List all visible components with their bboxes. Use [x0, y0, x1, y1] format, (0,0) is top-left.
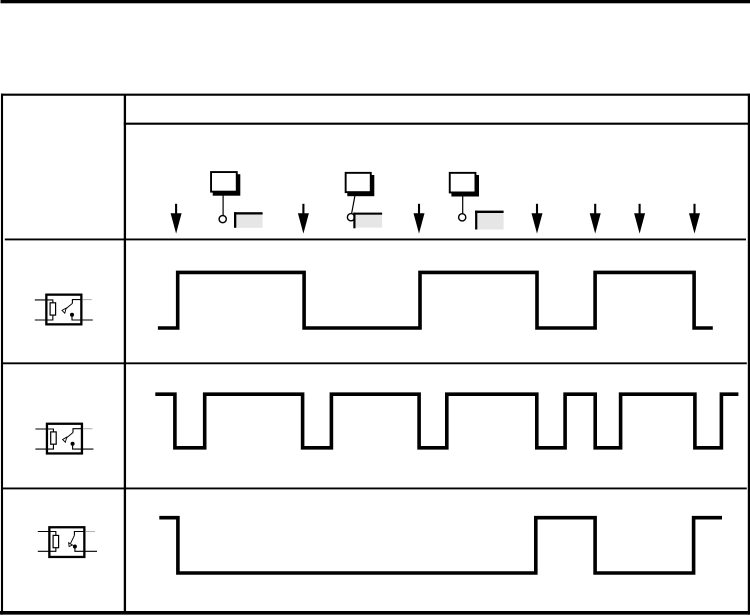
relay K3 common external wire (grey): [85, 531, 95, 533]
pushbutton S2 contact block left edge: [353, 213, 355, 229]
relay K2: [35, 424, 93, 454]
waveform: relay K1 output trace: [158, 272, 713, 328]
table outer border left: [1, 94, 3, 615]
pushbutton S2 contact block top edge: [353, 213, 382, 215]
pushbutton S2 button body: [346, 173, 371, 192]
relay K1: [35, 295, 93, 325]
waveform: relay K3 output trace: [159, 518, 722, 573]
top rule: [1, 0, 750, 3]
relay K3 case: [49, 527, 84, 557]
header inner rule: [124, 123, 750, 125]
event arrow 5: [590, 204, 601, 234]
relay K2 case: [47, 424, 82, 454]
relay K3 coil terminal wire A2: [38, 548, 56, 552]
relay K3 fixed contact dot: [73, 545, 77, 549]
relay K1 contact arm arrowhead: [62, 308, 66, 313]
pushbutton S2 movable contact circle: [347, 214, 354, 221]
pushbutton S3 contact block left edge: [475, 211, 477, 230]
relay K1 output terminal wire: [72, 315, 93, 320]
pushbutton S3 stem: [462, 193, 464, 213]
relay K2 contact arm (open): [66, 433, 73, 439]
relay K3 contact arm arrowhead: [69, 543, 73, 547]
relay K1 case: [46, 295, 81, 325]
event arrow 2: [298, 204, 309, 234]
pushbutton S2 stem (actuated): [352, 193, 356, 214]
table outer border top: [1, 94, 750, 96]
pushbutton S3 shadow: [451, 175, 479, 197]
pushbutton S1 contact block left edge: [234, 212, 236, 228]
relay K2 coil terminal wire A1: [35, 429, 53, 432]
pushbutton S3 contact block top edge: [475, 211, 504, 213]
relay K1 coil: [50, 303, 55, 315]
event arrow 1: [171, 204, 182, 234]
relay K1 fixed contact dot: [70, 313, 74, 317]
pushbutton S1 stem: [222, 193, 224, 215]
relay K1 coil terminal wire A2: [35, 315, 53, 320]
relay K2 coil: [51, 432, 56, 444]
relay K2 common external wire (grey): [83, 428, 92, 430]
pushbutton S1 shadow: [213, 174, 241, 196]
pushbutton S2 shadow: [347, 175, 374, 196]
pushbutton S2 contact block body: [356, 215, 383, 228]
relay K2 contact common terminal: [73, 429, 83, 433]
pushbutton S3 button body: [450, 173, 476, 193]
table outer border right: [748, 94, 750, 615]
pushbutton S3 contact block body: [477, 213, 503, 230]
table outer border bottom: [0, 611, 750, 615]
pushbutton S1 contact block top edge: [234, 212, 263, 214]
column divider: [124, 95, 126, 613]
row divider 2: [1, 362, 747, 364]
relay K2 coil terminal wire A2: [35, 444, 53, 449]
relay K1 contact common terminal: [72, 300, 82, 304]
relay K3 contact common terminal: [74, 532, 85, 536]
event arrow 6: [634, 204, 645, 234]
relay K3: [38, 527, 97, 557]
relay K1 common external wire (grey): [82, 299, 91, 301]
relay K3 output terminal wire: [75, 547, 97, 552]
pushbutton S3 movable contact circle: [459, 214, 466, 221]
relay K3 contact arm (closed): [71, 535, 75, 543]
row divider 3: [1, 487, 747, 489]
relay K2 contact arm arrowhead: [63, 437, 67, 442]
relay K3 coil: [53, 535, 58, 547]
relay K3 coil terminal wire A1: [38, 532, 56, 536]
relay K2 output terminal wire: [73, 444, 94, 449]
pushbutton S1 contact block body: [236, 215, 262, 228]
pushbutton S1 movable contact circle: [219, 216, 226, 223]
event arrow 7: [689, 204, 700, 234]
event arrow 4: [532, 204, 543, 234]
waveform: relay K2 output trace: [155, 394, 738, 448]
pushbutton S1 button body: [211, 172, 237, 192]
relay K2 fixed contact dot: [71, 442, 75, 446]
event arrow 3: [414, 204, 425, 234]
relay K1 contact arm (open): [66, 303, 73, 309]
row divider 1: [5, 238, 746, 240]
relay K1 coil terminal wire A1: [35, 300, 53, 303]
